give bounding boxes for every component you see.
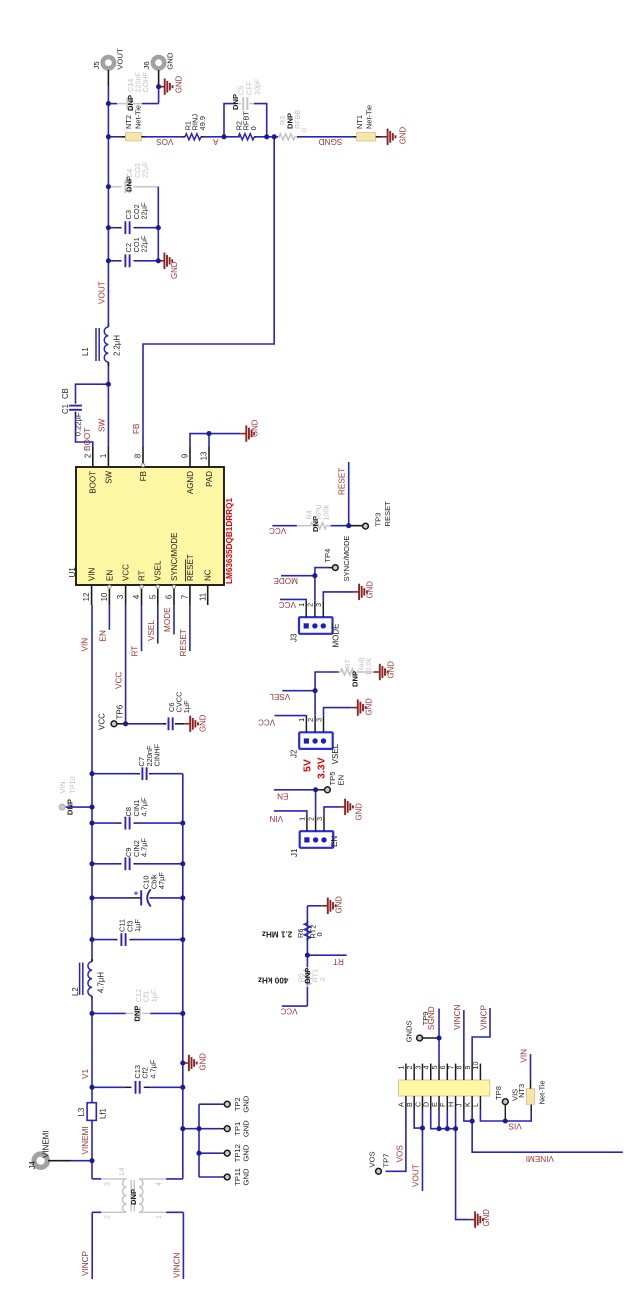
pin 4 RT (left) bbox=[141, 585, 143, 605]
pin 13 PAD (right) bbox=[208, 447, 210, 467]
wire pinF bbox=[446, 1110, 448, 1129]
wire pinB bbox=[414, 1110, 422, 1128]
svg-text:DNP: DNP bbox=[351, 671, 360, 687]
svg-text:DNP: DNP bbox=[125, 176, 134, 192]
wire RESET stub bbox=[189, 605, 191, 651]
wire RT stub bbox=[141, 605, 143, 651]
svg-text:1: 1 bbox=[297, 718, 306, 722]
svg-text:5V: 5V bbox=[302, 759, 314, 772]
pin E header left bbox=[438, 1096, 440, 1110]
wire VINCN stub bbox=[182, 1212, 184, 1279]
wire C14 column bbox=[108, 103, 117, 105]
ground R7 bbox=[374, 671, 380, 673]
svg-text:RESET: RESET bbox=[179, 629, 188, 656]
svg-text:SW: SW bbox=[104, 471, 113, 484]
svg-text:GND: GND bbox=[166, 52, 175, 70]
pin 1 stub L4 bbox=[139, 1211, 166, 1213]
svg-text:VCC: VCC bbox=[98, 713, 107, 730]
svg-text:0: 0 bbox=[315, 932, 324, 936]
svg-text:GND: GND bbox=[241, 1168, 250, 1185]
ground RT2 bbox=[322, 905, 328, 907]
ground SGND tie bbox=[382, 136, 388, 138]
test point TP4 SYNC/MODE bbox=[315, 568, 328, 576]
pin 2 BOOT (right) bbox=[92, 447, 94, 467]
svg-text:VINEMI: VINEMI bbox=[42, 1130, 51, 1158]
wire J3 pin2 MODE/SYNC bbox=[281, 576, 315, 601]
connector J5 VOUT bbox=[103, 57, 114, 68]
svg-text:RT: RT bbox=[131, 646, 140, 657]
connector J4 VINEMI bbox=[34, 1154, 47, 1167]
wire input bottom rail bbox=[182, 774, 184, 1179]
wire C2 column x bbox=[108, 260, 118, 262]
svg-text:TP8: TP8 bbox=[494, 1086, 503, 1100]
test point TP3 RESET bbox=[349, 525, 363, 527]
wire J1 pin3 to ground bbox=[324, 807, 339, 815]
svg-text:VOS: VOS bbox=[156, 137, 174, 146]
pin F header left bbox=[446, 1096, 448, 1110]
svg-text:NC: NC bbox=[204, 569, 213, 581]
ground input rail bbox=[183, 1062, 189, 1064]
svg-text:VSEL: VSEL bbox=[331, 743, 340, 764]
svg-text:2: 2 bbox=[105, 1215, 112, 1219]
svg-text:DNP: DNP bbox=[129, 1189, 138, 1205]
svg-text:MODE: MODE bbox=[332, 624, 341, 648]
resistor R2 RFBT 0 bbox=[238, 136, 240, 138]
svg-text:VINEMI: VINEMI bbox=[81, 1126, 90, 1154]
svg-text:VINEMI: VINEMI bbox=[526, 1154, 554, 1163]
pin D header left bbox=[430, 1096, 432, 1110]
test point TP1 GND bbox=[199, 1128, 221, 1130]
test point TP7 VOS bbox=[376, 1168, 382, 1174]
wire C1 to SW node bbox=[76, 384, 109, 401]
ground output caps bbox=[158, 260, 164, 262]
wire VIN from NT3 bbox=[530, 1054, 532, 1078]
svg-text:L: L bbox=[471, 1103, 480, 1107]
capacitor C8 CIN1 4.7uF bbox=[92, 822, 119, 824]
svg-text:VIN: VIN bbox=[81, 638, 90, 652]
svg-text:3: 3 bbox=[315, 817, 324, 821]
svg-text:4: 4 bbox=[132, 594, 141, 599]
wire J3 pin3 gnd bbox=[323, 592, 353, 601]
svg-text:C1: C1 bbox=[61, 404, 70, 414]
svg-text:4.7µF: 4.7µF bbox=[148, 1059, 157, 1079]
svg-text:EN: EN bbox=[336, 775, 345, 786]
svg-text:TP6: TP6 bbox=[116, 704, 125, 719]
svg-text:RESET: RESET bbox=[383, 501, 392, 527]
svg-text:VSEL: VSEL bbox=[269, 692, 290, 701]
pin 10 header right bbox=[479, 1064, 481, 1080]
net tie NT1 bbox=[353, 136, 357, 138]
svg-text:1: 1 bbox=[298, 817, 307, 821]
svg-text:GNDS: GNDS bbox=[405, 1020, 414, 1042]
pin 9 AGND (right) bbox=[189, 447, 191, 467]
ground J1 bbox=[339, 806, 345, 808]
net tie NT3 bbox=[530, 1104, 532, 1113]
svg-text:+: + bbox=[132, 891, 141, 896]
wire VCC to RT1 bbox=[282, 1005, 308, 1007]
svg-text:GND: GND bbox=[198, 714, 207, 732]
wire VSEL stub bbox=[157, 605, 159, 644]
svg-text:J6: J6 bbox=[142, 61, 151, 69]
pin 2 header right bbox=[413, 1064, 415, 1080]
capacitor C9 CIN2 4.7uF bbox=[92, 863, 119, 865]
svg-text:0: 0 bbox=[318, 978, 327, 982]
inductor L1 2.2uH bbox=[107, 362, 109, 366]
svg-text:EN: EN bbox=[277, 792, 288, 801]
svg-text:R6: R6 bbox=[296, 929, 305, 938]
svg-text:DNP: DNP bbox=[231, 94, 240, 110]
svg-text:400 kHz: 400 kHz bbox=[258, 976, 289, 985]
svg-text:NT1: NT1 bbox=[355, 115, 364, 129]
svg-text:MODE: MODE bbox=[163, 607, 172, 632]
connector J2 VSEL header bbox=[299, 732, 333, 749]
wire C14 to J6 line bbox=[142, 103, 159, 105]
pin C header left bbox=[421, 1096, 423, 1110]
svg-text:10.0k: 10.0k bbox=[364, 658, 373, 676]
wire VINCP stub bbox=[91, 1212, 93, 1279]
svg-text:AGND: AGND bbox=[186, 471, 195, 494]
wire to R1 bbox=[145, 136, 183, 138]
svg-text:VOS: VOS bbox=[368, 1151, 377, 1167]
svg-text:L1: L1 bbox=[81, 347, 90, 356]
ground at J6 bbox=[159, 86, 165, 88]
wire SW rail bbox=[107, 362, 109, 447]
svg-text:TP3: TP3 bbox=[374, 513, 383, 527]
svg-text:GND: GND bbox=[355, 803, 364, 821]
svg-text:GND: GND bbox=[366, 581, 375, 599]
svg-text:GND: GND bbox=[398, 127, 407, 145]
capacitor C6 CVCC 1uF bbox=[162, 723, 166, 725]
capacitor C7 220nF CINHF bbox=[92, 773, 137, 775]
wire R3 to NT1 bbox=[297, 136, 353, 138]
test point TP11 GND bbox=[199, 1176, 221, 1178]
wire J2 pin2 VSEL bbox=[282, 691, 315, 716]
svg-text:3.3V: 3.3V bbox=[316, 757, 328, 779]
svg-text:RT: RT bbox=[137, 570, 146, 581]
wire RESET branch bbox=[348, 462, 350, 526]
svg-text:VSEL: VSEL bbox=[147, 620, 156, 641]
wire RT node bbox=[306, 906, 308, 1006]
ground J2 bbox=[352, 707, 358, 709]
wire AGND-PAD to ground bbox=[190, 434, 240, 447]
svg-text:9: 9 bbox=[181, 454, 190, 458]
resistor R6 RT2 0 bbox=[306, 939, 308, 941]
pin B header left bbox=[413, 1096, 415, 1110]
test point TP9 GNDS bbox=[423, 1037, 440, 1039]
svg-text:TP4: TP4 bbox=[323, 549, 332, 563]
svg-text:1: 1 bbox=[99, 454, 108, 458]
wire tp bus link bbox=[183, 1128, 199, 1130]
pin 4 stub L4 bbox=[139, 1178, 166, 1180]
svg-text:VINCP: VINCP bbox=[81, 1250, 90, 1276]
svg-text:GND: GND bbox=[482, 1209, 491, 1227]
wire C4 column x bbox=[108, 186, 118, 188]
svg-text:FB: FB bbox=[139, 471, 148, 481]
svg-text:0: 0 bbox=[300, 128, 309, 132]
wire BOOT pin to C1 bbox=[76, 414, 93, 447]
svg-text:GND: GND bbox=[199, 1053, 208, 1071]
resistor R7 Radj 10.0k DNP bbox=[339, 671, 341, 673]
ground AGND bbox=[240, 433, 246, 435]
svg-text:RESET: RESET bbox=[186, 554, 195, 581]
wire J5 stub bbox=[107, 70, 109, 86]
wire pinK VINEMI bbox=[472, 1110, 623, 1152]
svg-text:VIN: VIN bbox=[269, 814, 283, 823]
resistor R1 RINJ 49.9 bbox=[183, 136, 185, 138]
wire pin8 VINCN bbox=[463, 1010, 465, 1064]
wire pinH to ground bbox=[456, 1110, 469, 1220]
wire pin5 SGND bbox=[438, 1009, 440, 1064]
svg-text:GND: GND bbox=[174, 75, 183, 93]
svg-text:GND: GND bbox=[387, 661, 396, 679]
svg-text:VCC: VCC bbox=[280, 1007, 297, 1016]
svg-text:J2: J2 bbox=[290, 749, 299, 758]
pin 5 header right bbox=[438, 1064, 440, 1080]
capacitor C3 CO2 22µF bbox=[124, 221, 126, 234]
svg-text:VOUT: VOUT bbox=[98, 281, 107, 304]
svg-text:VIN: VIN bbox=[58, 782, 67, 794]
svg-text:0.22µF: 0.22µF bbox=[74, 412, 83, 436]
svg-text:VINCP: VINCP bbox=[480, 1004, 489, 1030]
wire VIN rail left bbox=[91, 999, 93, 1103]
svg-text:RESET: RESET bbox=[338, 468, 347, 495]
svg-text:CINHF: CINHF bbox=[153, 743, 162, 766]
pin 5 VSEL (left) bbox=[157, 585, 159, 605]
svg-text:22µF: 22µF bbox=[140, 202, 149, 219]
svg-text:4: 4 bbox=[156, 1182, 163, 1186]
capacitor C12 Cf1 1uF DNP branch bbox=[92, 1012, 126, 1014]
pin L header left bbox=[479, 1096, 481, 1110]
svg-text:22µF: 22µF bbox=[140, 235, 149, 252]
svg-text:BOOT: BOOT bbox=[89, 471, 98, 494]
svg-text:COHF: COHF bbox=[141, 72, 150, 93]
svg-text:VOUT: VOUT bbox=[412, 1164, 421, 1187]
svg-text:VCC: VCC bbox=[122, 564, 131, 581]
svg-text:A: A bbox=[213, 137, 219, 146]
capacitor C14 220nF DNP bbox=[126, 97, 128, 110]
svg-text:100k: 100k bbox=[322, 505, 331, 521]
svg-text:VCC: VCC bbox=[258, 718, 275, 727]
svg-text:VCC: VCC bbox=[115, 672, 124, 689]
svg-text:VSEL: VSEL bbox=[154, 560, 163, 581]
wire PAD bbox=[208, 434, 210, 447]
wire R7 branch bbox=[315, 672, 338, 691]
svg-text:MODE: MODE bbox=[273, 576, 298, 585]
svg-text:TP9: TP9 bbox=[421, 1011, 430, 1025]
svg-text:22µF: 22µF bbox=[141, 161, 150, 178]
wire R4 to TP3 junction bbox=[331, 525, 366, 527]
connector J1 EN header bbox=[300, 831, 334, 848]
wire J2 pin3 gnd bbox=[324, 708, 352, 716]
pin 1 header right bbox=[405, 1064, 407, 1080]
pin 11 NC (left) bbox=[207, 585, 209, 605]
svg-text:TP10: TP10 bbox=[68, 776, 77, 793]
wire J3 pin1 VCC bbox=[280, 599, 306, 600]
svg-text:L4: L4 bbox=[117, 1168, 126, 1176]
wire VIN rail to choke bbox=[91, 1120, 93, 1179]
svg-text:LM63635DQB1DRRQ1: LM63635DQB1DRRQ1 bbox=[225, 498, 234, 584]
capacitor C1 0.22uF (BOOT) bbox=[75, 412, 77, 414]
test point TP12 GND bbox=[199, 1152, 221, 1154]
pin 12 VIN (left) bbox=[91, 585, 93, 605]
wire J1 pin2 EN bbox=[274, 790, 316, 815]
svg-text:EN: EN bbox=[98, 630, 107, 641]
svg-text:EN: EN bbox=[330, 836, 339, 847]
pin 4 header right bbox=[430, 1064, 432, 1080]
capacitor C4 CO3 22µF bbox=[124, 180, 126, 193]
connector J6 GND bbox=[153, 57, 164, 68]
wire pinE bbox=[438, 1110, 440, 1129]
svg-text:2.2µH: 2.2µH bbox=[113, 335, 122, 356]
svg-text:7: 7 bbox=[181, 595, 190, 599]
svg-text:1: 1 bbox=[297, 603, 306, 607]
svg-text:PAD: PAD bbox=[205, 471, 214, 487]
wire feedback column top bbox=[108, 136, 121, 138]
wire MODE stub bbox=[173, 605, 175, 634]
svg-text:GND: GND bbox=[170, 261, 179, 279]
wire EN stub bbox=[108, 605, 110, 630]
svg-text:V1: V1 bbox=[81, 1069, 90, 1079]
svg-text:3: 3 bbox=[314, 718, 323, 722]
svg-text:4.7µF: 4.7µF bbox=[140, 797, 149, 817]
wire VCC to R4 bbox=[272, 525, 297, 527]
svg-text:DNP: DNP bbox=[132, 1006, 141, 1022]
svg-text:VCC: VCC bbox=[269, 526, 286, 535]
ground J3 bbox=[353, 591, 359, 593]
svg-text:RFBB: RFBB bbox=[293, 110, 302, 129]
svg-text:3: 3 bbox=[105, 1182, 112, 1186]
svg-text:TP7: TP7 bbox=[382, 1154, 391, 1168]
pin 2 stub L4 bbox=[101, 1211, 126, 1213]
ferrite bead L3 Lf1 bbox=[87, 1103, 96, 1121]
svg-text:47µF: 47µF bbox=[157, 872, 166, 889]
svg-text:DNP: DNP bbox=[65, 799, 74, 815]
svg-text:VCC: VCC bbox=[279, 600, 296, 609]
ground C6 bbox=[184, 723, 190, 725]
svg-text:RT: RT bbox=[333, 957, 344, 966]
capacitor C5 CFF 10pF DNP loop bbox=[224, 104, 236, 137]
wire NT1 to ground bbox=[380, 136, 382, 138]
capacitor C13 Cf2 4.7uF bbox=[92, 1086, 125, 1088]
wire pinC VOUT bbox=[421, 1110, 423, 1191]
capacitor C10 Cblk 47uF polarized bbox=[92, 897, 129, 899]
svg-text:Net-Tie: Net-Tie bbox=[538, 1080, 547, 1104]
svg-text:L3: L3 bbox=[77, 1108, 86, 1117]
svg-text:12: 12 bbox=[82, 593, 91, 602]
svg-text:VIN: VIN bbox=[88, 567, 97, 581]
svg-text:R7: R7 bbox=[343, 659, 352, 668]
svg-text:1µF: 1µF bbox=[149, 989, 158, 1002]
svg-text:10: 10 bbox=[100, 592, 109, 601]
svg-text:2.1 MHz: 2.1 MHz bbox=[262, 930, 292, 939]
wire pinL VIS bbox=[480, 1110, 531, 1121]
svg-text:VOS: VOS bbox=[395, 1145, 404, 1163]
svg-text:Net-Tie: Net-Tie bbox=[365, 105, 374, 129]
svg-text:6: 6 bbox=[165, 595, 174, 599]
svg-text:4.7µF: 4.7µF bbox=[140, 837, 149, 857]
wire pinJ bbox=[464, 1110, 472, 1121]
svg-text:VINCN: VINCN bbox=[453, 1004, 462, 1030]
pin 3 VCC (left) bbox=[125, 585, 127, 605]
svg-text:11: 11 bbox=[198, 593, 207, 601]
wire pin9 VINCP bbox=[472, 1008, 490, 1064]
pin 10 EN (left) bbox=[108, 585, 110, 605]
svg-text:4.7µH: 4.7µH bbox=[97, 972, 106, 993]
pin 8 FB (right) bbox=[142, 447, 144, 467]
pin 7 header right bbox=[455, 1064, 457, 1080]
pin 9 header right bbox=[471, 1064, 473, 1080]
svg-text:SW: SW bbox=[98, 419, 107, 432]
pin 1 SW (right) bbox=[107, 447, 109, 467]
svg-text:VIS: VIS bbox=[508, 1122, 522, 1131]
svg-text:Lf1: Lf1 bbox=[99, 1108, 108, 1119]
svg-text:GND: GND bbox=[241, 1144, 250, 1161]
net tie NT2 bbox=[122, 136, 126, 138]
resistor R4 RPU 100k DNP bbox=[297, 525, 311, 527]
svg-text:NT2: NT2 bbox=[124, 115, 133, 129]
svg-text:49.9: 49.9 bbox=[198, 116, 207, 130]
svg-text:EN: EN bbox=[105, 570, 114, 581]
svg-text:J3: J3 bbox=[290, 633, 299, 642]
svg-text:SYNC/MODE: SYNC/MODE bbox=[170, 533, 179, 581]
wire VCC to C6 bbox=[126, 723, 163, 725]
svg-text:GND: GND bbox=[251, 419, 260, 437]
wire tp bus bbox=[198, 1104, 200, 1177]
wire pinD bbox=[431, 1110, 456, 1129]
wire R7 to gnd bbox=[359, 671, 374, 673]
pin 3 stub L4 bbox=[101, 1178, 126, 1180]
svg-text:SGND: SGND bbox=[319, 137, 343, 146]
svg-text:VINCN: VINCN bbox=[172, 1252, 181, 1278]
svg-text:2: 2 bbox=[83, 454, 92, 458]
ground header bbox=[469, 1219, 475, 1221]
capacitor C11 Cf3 1uF bbox=[92, 939, 115, 941]
svg-text:3: 3 bbox=[314, 603, 323, 607]
svg-text:Net-Tie: Net-Tie bbox=[134, 105, 143, 129]
resistor RT1 0 DNP (R5) bbox=[306, 985, 308, 987]
wire output caps bottom rail bbox=[157, 187, 159, 261]
wire pinA VOS to TP7 bbox=[386, 1110, 406, 1171]
wire VIN rail mid bbox=[91, 807, 93, 962]
pin J header left bbox=[463, 1096, 465, 1110]
svg-text:NT3: NT3 bbox=[517, 1084, 526, 1098]
wire VCC rail bbox=[125, 605, 127, 724]
svg-text:GND: GND bbox=[335, 896, 344, 914]
capacitor C2 CO1 22µF bbox=[124, 254, 126, 267]
wire to gnd RT2 bbox=[307, 905, 321, 907]
test point TP6 bbox=[117, 723, 126, 725]
pin 7 RESET (left) bbox=[189, 585, 191, 605]
svg-text:1µF: 1µF bbox=[133, 919, 142, 932]
svg-text:J5: J5 bbox=[92, 61, 101, 69]
test point TP10 VIN DNP bbox=[66, 806, 93, 808]
pin 6 SYNC/MODE (left) bbox=[173, 585, 175, 605]
svg-text:10pF: 10pF bbox=[253, 78, 262, 95]
svg-text:1: 1 bbox=[156, 1215, 163, 1219]
svg-text:VOUT: VOUT bbox=[116, 48, 125, 70]
svg-text:CB: CB bbox=[61, 388, 70, 399]
op-amp U1 body (LM63635 regulator IC) bbox=[76, 467, 224, 585]
pin K header left bbox=[471, 1096, 473, 1110]
svg-text:SYNC/MODE: SYNC/MODE bbox=[342, 536, 351, 582]
wire VOUT rail bbox=[107, 86, 109, 327]
pin A header left bbox=[405, 1096, 407, 1110]
svg-text:5: 5 bbox=[148, 594, 157, 599]
svg-text:0: 0 bbox=[249, 126, 258, 130]
svg-text:U1: U1 bbox=[68, 567, 77, 578]
svg-text:VIN: VIN bbox=[520, 1049, 529, 1063]
wire J1 pin1 VIN bbox=[274, 811, 307, 815]
